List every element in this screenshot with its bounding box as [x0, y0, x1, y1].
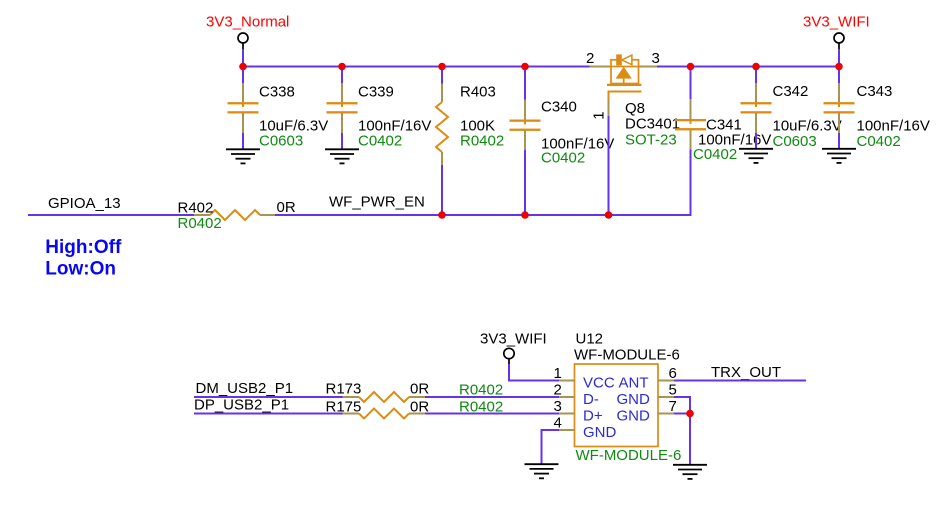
svg-text:C342: C342: [773, 83, 809, 100]
pin 1: [554, 365, 615, 392]
pin 5: [617, 382, 677, 409]
svg-text:DC3401: DC3401: [625, 116, 680, 133]
wire pin5 elbow: [674, 397, 690, 414]
junction dots top bus: [239, 63, 843, 71]
ground under C342: [739, 149, 773, 163]
wire C341 to WF_PWR_EN: [690, 150, 691, 216]
power port 3V3_WIFI bottom: [480, 331, 547, 366]
svg-text:0R: 0R: [277, 199, 296, 216]
svg-text:WF-MODULE-6: WF-MODULE-6: [576, 447, 682, 464]
wire 3V3_Normal stub: [242, 49, 244, 67]
svg-text:ANT: ANT: [619, 375, 649, 392]
resistor R403: [436, 67, 504, 216]
wire top bus right: [657, 66, 840, 68]
svg-text:3: 3: [554, 398, 562, 415]
wire WF_PWR_EN: [275, 214, 692, 216]
resistor R173: [326, 381, 504, 403]
wire DM_USB2_P1: [194, 396, 343, 398]
svg-text:C339: C339: [358, 84, 394, 101]
svg-text:R173: R173: [326, 381, 362, 398]
junction dots WF_PWR_EN: [438, 211, 612, 219]
pin 6: [619, 365, 677, 392]
svg-text:2: 2: [554, 382, 562, 399]
svg-text:U12: U12: [576, 331, 604, 348]
wire Q8 gate to WF_PWR_EN: [608, 116, 610, 215]
svg-text:7: 7: [669, 398, 677, 415]
svg-text:SOT-23: SOT-23: [625, 132, 677, 149]
svg-text:DM_USB2_P1: DM_USB2_P1: [196, 380, 294, 397]
svg-text:C0402: C0402: [857, 133, 901, 150]
svg-text:0R: 0R: [410, 381, 429, 398]
capacitor C340: [510, 67, 615, 216]
svg-text:1: 1: [590, 111, 607, 119]
svg-text:3V3_Normal: 3V3_Normal: [206, 14, 289, 31]
ground pin4: [525, 464, 559, 478]
svg-text:C0402: C0402: [541, 150, 585, 167]
svg-text:TRX_OUT: TRX_OUT: [711, 364, 781, 381]
resistor R402: [178, 199, 296, 232]
svg-text:High:Off: High:Off: [45, 237, 122, 258]
svg-text:C0603: C0603: [773, 133, 817, 150]
transistor Q8: [586, 50, 680, 149]
wire pin7 to ground: [674, 414, 690, 465]
svg-text:1: 1: [554, 365, 562, 382]
svg-text:D-: D-: [583, 391, 599, 408]
svg-text:DP_USB2_P1: DP_USB2_P1: [194, 397, 289, 414]
svg-text:C0402: C0402: [693, 146, 737, 163]
svg-text:100nF/16V: 100nF/16V: [857, 118, 930, 135]
svg-text:R0402: R0402: [459, 382, 503, 399]
svg-text:3: 3: [652, 50, 660, 67]
pin 3: [554, 398, 603, 425]
ground under C338: [226, 149, 260, 163]
wire top bus left: [242, 66, 590, 68]
svg-text:GND: GND: [617, 408, 651, 425]
pin 4: [554, 415, 617, 442]
svg-text:GPIOA_13: GPIOA_13: [48, 195, 121, 212]
wire 3V3_WIFI stub: [838, 49, 840, 67]
ground pin5 pin7: [673, 465, 707, 479]
svg-text:6: 6: [669, 365, 677, 382]
wire 3V3_WIFI to pin1: [509, 364, 559, 381]
svg-text:R0402: R0402: [460, 133, 504, 150]
pin 2: [554, 382, 599, 409]
wire pin4 to ground: [542, 430, 560, 464]
svg-text:GND: GND: [617, 391, 651, 408]
svg-text:D+: D+: [583, 408, 603, 425]
svg-text:C0603: C0603: [259, 133, 303, 150]
wire DP_USB2_P1: [194, 413, 343, 415]
svg-text:Low:On: Low:On: [45, 259, 116, 280]
wire R175 to pin3: [425, 413, 559, 415]
capacitor C338: [228, 67, 329, 150]
capacitor C342: [741, 67, 842, 151]
svg-text:3V3_WIFI: 3V3_WIFI: [480, 331, 547, 348]
svg-text:R175: R175: [326, 399, 362, 416]
svg-text:WF_PWR_EN: WF_PWR_EN: [329, 194, 425, 211]
wire GPIOA_13: [28, 214, 194, 216]
capacitor C339: [327, 67, 432, 150]
power port 3V3_WIFI top: [803, 14, 870, 51]
resistor R175: [326, 399, 504, 419]
wire R173 to pin2: [425, 396, 559, 398]
svg-text:5: 5: [669, 382, 677, 399]
capacitor C341: [675, 67, 771, 164]
power port 3V3_Normal: [206, 14, 289, 51]
note High:Off Low:On: [45, 237, 122, 280]
svg-text:10uF/6.3V: 10uF/6.3V: [773, 118, 842, 135]
capacitor C343: [824, 67, 930, 151]
svg-text:C340: C340: [541, 99, 577, 116]
junction dot pin7: [686, 410, 694, 418]
svg-text:C0402: C0402: [358, 133, 402, 150]
svg-text:GND: GND: [583, 424, 617, 441]
svg-text:R402: R402: [178, 200, 214, 217]
svg-text:4: 4: [554, 415, 562, 432]
wire TRX_OUT: [674, 380, 806, 382]
IC U12 WF-MODULE-6: [574, 331, 681, 465]
svg-text:C338: C338: [259, 84, 295, 101]
pin 7: [617, 398, 677, 425]
ground under C343: [822, 149, 856, 163]
svg-text:3V3_WIFI: 3V3_WIFI: [803, 14, 870, 31]
svg-text:C343: C343: [857, 83, 893, 100]
svg-text:Q8: Q8: [625, 100, 645, 117]
ground under C339: [325, 149, 359, 163]
svg-text:WF-MODULE-6: WF-MODULE-6: [574, 347, 680, 364]
svg-text:VCC: VCC: [583, 375, 615, 392]
svg-text:2: 2: [586, 50, 594, 67]
svg-text:R0402: R0402: [178, 215, 222, 232]
svg-text:R403: R403: [460, 84, 496, 101]
